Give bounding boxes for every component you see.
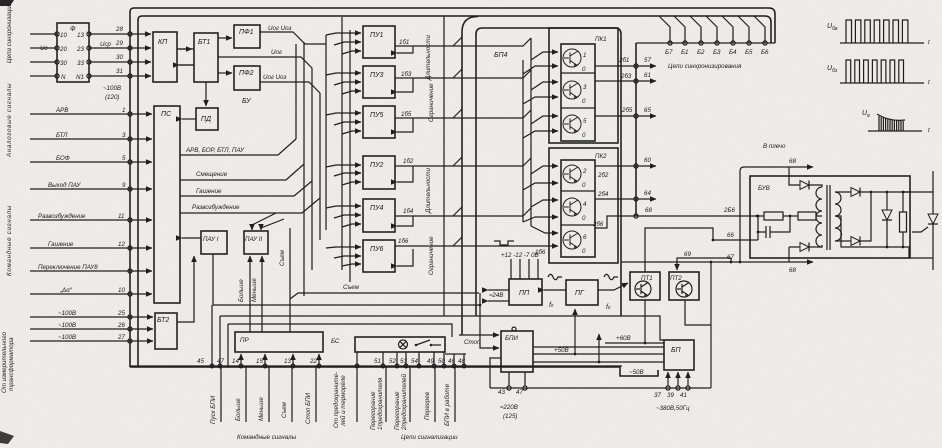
wire ПТ1 emitter down: [644, 300, 647, 344]
ПУ2 feedback: [397, 166, 413, 182]
ПУ5 inputs: [326, 113, 361, 134]
cell 1 inputs: [523, 52, 558, 74]
block БС: [355, 337, 445, 352]
wire БТ1 to ПФ2: [218, 72, 232, 74]
pin 68 wire 2Б6: [634, 207, 764, 218]
long wire y315: [220, 316, 664, 340]
block ПП: [509, 279, 542, 305]
link 68 to box: [788, 167, 790, 176]
left margin label: От измерительного трансформатора: [1, 332, 15, 393]
ПУ6 feedback: [397, 249, 413, 266]
sync drop Б2: [690, 16, 701, 43]
sync drop Б7: [659, 16, 670, 43]
БП pins 37 39 41: [654, 372, 690, 412]
wire 45 vertical: [211, 305, 213, 366]
pin row bottom line: [130, 365, 622, 367]
drop wire Перегорание 1: [370, 366, 386, 430]
cells box 2: [561, 160, 595, 257]
drop wire Перегрев: [424, 366, 435, 422]
pin 57: [634, 57, 656, 68]
wire Развозбуждение from ПС: [180, 198, 320, 213]
bus lower verticals: [304, 164, 320, 296]
output bus vertical to sync line: [462, 17, 478, 336]
input БТЛ pin 3: [30, 132, 152, 141]
wire Стоп lower into БПИ: [479, 293, 499, 348]
secondary mid tap: [835, 216, 909, 258]
wire Смещение from ПС: [180, 164, 304, 180]
sync drop Б4: [722, 16, 733, 43]
wire 68 bottom arrow: [787, 262, 813, 274]
wire +60В: [605, 335, 664, 343]
waveform Uв: [862, 110, 930, 134]
bus merge diagonals: [453, 37, 462, 246]
ПУ1 feedback: [397, 46, 413, 53]
block ПК1: [549, 28, 618, 143]
ПУ6 inputs: [326, 247, 361, 266]
cell 5 inputs: [523, 116, 558, 138]
sync pins row: [636, 41, 775, 56]
resistor R2: [783, 212, 822, 220]
drop wire Перегорание 2: [394, 366, 410, 431]
wire БПИ left down: [490, 358, 501, 388]
riser +60В arrow: [598, 334, 600, 362]
transformer block Ф: [57, 23, 89, 82]
ПУ2 output 1б2: [395, 158, 531, 166]
resistor R3 vertical: [900, 191, 907, 249]
ПУ3 inputs: [326, 73, 361, 94]
drop wire Меньше: [258, 366, 269, 422]
sine glyph 2: [604, 274, 618, 280]
block ПТ2: [669, 272, 699, 300]
block БТ1: [194, 33, 218, 82]
drop wire Пуск БПИ: [210, 366, 221, 424]
pin numbers bottom left: [197, 358, 317, 365]
cell 2 output 2б2: [595, 166, 636, 179]
scan artifact bottom-left: [0, 431, 14, 444]
wire Больше into ПАУ II: [238, 256, 250, 332]
cell 4 inputs: [523, 200, 558, 222]
ПУ2 inputs: [326, 165, 361, 185]
bus vertical v1: [296, 17, 350, 282]
input Развозбуждение pin 11: [30, 213, 152, 222]
sync drop Б5: [738, 16, 749, 43]
drop wire Больше: [235, 366, 246, 422]
transistor 1: [563, 49, 586, 73]
≈24В outputs: [488, 290, 509, 301]
transformer secondary: [835, 192, 842, 241]
wire БТ1 to ПФ1: [218, 37, 232, 39]
sync drop Б6: [754, 16, 765, 43]
drop wire Стоп БПИ: [305, 366, 316, 424]
input ~100В pin 25: [30, 310, 153, 319]
ПУ6 output 1б6: [395, 238, 558, 246]
transistor 2: [563, 165, 587, 189]
pin 65: [634, 107, 656, 118]
feed bus verticals: [523, 38, 531, 226]
wire Uог Uоз from ПФ2: [260, 74, 320, 93]
vertical riser right: [710, 262, 712, 388]
capacitor C: [757, 216, 790, 240]
transistor 4: [563, 198, 587, 222]
block ПУ1: [363, 26, 395, 58]
block БП: [664, 340, 694, 370]
switch: [415, 340, 441, 346]
wire ПД to ПС: [182, 118, 196, 120]
waveform Uбз: [827, 60, 930, 86]
input ~100В pin 26: [30, 322, 153, 331]
transistor 6: [563, 231, 587, 255]
block ПК2: [549, 148, 618, 263]
block БПИ: [501, 327, 533, 372]
input lines Uc to Ф: [30, 32, 84, 81]
block ПУ5: [363, 106, 395, 138]
block ПД: [196, 108, 218, 130]
ПР bottom pins: [241, 354, 319, 366]
cell 2 inputs: [523, 166, 558, 190]
wire Uог from БТ1: [218, 49, 312, 68]
cell 6 input upper: [531, 226, 558, 233]
transformer core: [827, 185, 830, 250]
cell 5 output 2б5: [595, 107, 636, 116]
pin numbers bottom middle: [374, 358, 465, 365]
bottom long wire: [490, 387, 711, 389]
block КП: [153, 32, 177, 82]
block ПС: [154, 106, 180, 303]
cell 4 output 2б4: [595, 191, 636, 199]
pin bus vertical: [635, 43, 637, 216]
cell 3 output 2б3: [595, 73, 636, 81]
БП4 box border: [476, 28, 621, 316]
bottom border line: [130, 367, 658, 376]
ПУ4 feedback: [397, 216, 413, 226]
БПИ pins 43 47: [498, 372, 527, 420]
pin 64: [634, 190, 656, 201]
cell divider lines: [561, 73, 595, 108]
sine glyph 1: [548, 274, 562, 280]
sync drop Б1: [674, 16, 685, 43]
pin 61: [634, 72, 656, 83]
wire Uог Uоз from ПФ1: [260, 25, 326, 44]
resistor R1: [757, 212, 783, 220]
ПУ3 feedback: [397, 78, 413, 92]
transistor 5: [563, 115, 587, 139]
bus vertical 444: [443, 16, 445, 316]
diode D4: [835, 191, 872, 246]
block ПТ1: [630, 272, 660, 300]
wire 66 from ПТ1: [645, 228, 758, 272]
zener VD: [882, 191, 892, 249]
block ПУ3: [363, 66, 395, 98]
ПУ4 inputs: [326, 206, 361, 227]
input ~100В pin 27: [30, 334, 153, 343]
block ПФ1: [234, 25, 260, 48]
border 2 / sync bus line to Б6: [138, 16, 771, 367]
wires БПИ to БП: [533, 347, 664, 363]
block ПУ4: [363, 199, 395, 232]
cell divider lines 2: [561, 191, 595, 225]
wires bus to КП: [130, 34, 151, 76]
scan artifact top-left: [0, 0, 14, 6]
wire ПАУ I down to bus: [213, 254, 479, 305]
supply stubs into ПП: [511, 259, 538, 279]
drop wire Съем: [281, 366, 292, 422]
waveform Uбв: [827, 20, 930, 46]
wire БТ2 to ПАУ I: [177, 256, 194, 322]
ПУ1 inputs: [326, 33, 361, 54]
riser to ПГ: [574, 309, 576, 354]
block ПУ2: [363, 156, 395, 189]
block ПАУ II: [244, 231, 268, 254]
ПУ5 output 1б5: [395, 110, 531, 118]
ПУ4 output 1б4: [395, 208, 531, 216]
ПУ1 output 1б1: [395, 38, 531, 46]
pulse glyph: [494, 241, 514, 245]
thyristor VS: [903, 171, 938, 270]
input Δα pin 10: [30, 287, 152, 296]
wire ПГ to ПП: [544, 289, 566, 291]
block ПАУ I: [201, 231, 227, 254]
drop wire От предохранителей: [333, 366, 357, 428]
block БТ2: [155, 313, 177, 349]
input АРВ pin 1: [30, 107, 152, 116]
ПУ3 output 1б3: [395, 70, 531, 78]
wire Гашение from ПС: [180, 181, 312, 196]
diode D1 top: [789, 176, 822, 190]
wires Ф to bus pins 28-31: [87, 26, 130, 101]
cells box 1: [561, 44, 595, 141]
wire y324 to БС: [228, 324, 452, 366]
input БОФ pin 5: [30, 155, 152, 164]
wire Съем vertical: [279, 228, 290, 332]
wire ПГ to ПТ1: [598, 283, 628, 290]
wire БТ1 to ПД: [205, 82, 207, 106]
wire АРВ БОР БТЛ ПАУ from ПС: [180, 139, 296, 155]
block ПУ6: [363, 240, 395, 272]
БС bottom pins: [357, 352, 444, 366]
wire Съем horizontal: [290, 284, 479, 299]
drop wire БПИ в работе: [444, 366, 455, 426]
wire ПТ2 emitter down: [685, 300, 711, 325]
input Переключение ПАУ pin 8: [30, 264, 152, 273]
wire right of БС: [445, 354, 466, 366]
wire 68 top arrow: [739, 158, 813, 263]
block ПР: [235, 332, 323, 352]
diode D3: [835, 188, 910, 197]
bottom row pin circles: [210, 364, 466, 368]
transistor 3: [563, 81, 587, 105]
wires КП-БТ1: [177, 49, 194, 65]
block ПФ2: [234, 66, 260, 90]
wire Стоп upper into БПИ: [459, 335, 499, 346]
wire 47 vertical: [219, 316, 221, 366]
node circles pins 28-31: [128, 32, 132, 78]
ПУ5 feedback: [397, 118, 413, 132]
block БУВ: [750, 176, 910, 258]
sync drop Б3: [706, 16, 717, 43]
cell 1 output 2б1: [595, 57, 636, 66]
wire 67: [621, 254, 787, 263]
wire ПАУ I to ПС: [182, 237, 201, 239]
input Гашение pin 12: [30, 241, 152, 250]
wire 69 into ПТ2: [677, 251, 732, 270]
lamp: [399, 340, 408, 349]
pin 60: [634, 157, 656, 168]
outer border / sync bus line 1: [130, 8, 775, 367]
wires into ПАУ II top: [252, 213, 284, 230]
transformer primary: [816, 187, 822, 247]
wire Меньше into ПАУ II: [251, 256, 262, 332]
cell 3 inputs: [523, 82, 558, 104]
cell 6 output 2б6: [592, 216, 636, 228]
block ПГ: [566, 280, 598, 305]
input Выход ПАУ pin 9: [30, 182, 152, 191]
diode D2 bottom: [789, 243, 822, 263]
